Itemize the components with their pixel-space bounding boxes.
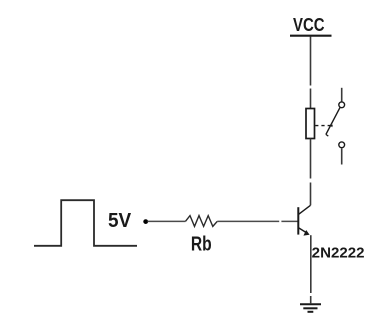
ground	[300, 304, 321, 312]
wire node to resistor Rb	[148, 220, 186, 222]
relay switch bottom contact stub wire	[341, 148, 343, 164]
svg-text:Rb: Rb	[191, 234, 212, 256]
svg-text:5V: 5V	[108, 210, 132, 232]
node input junction dot	[143, 219, 148, 224]
relay coil (box)	[306, 109, 315, 139]
relay switch top contact circle	[339, 102, 345, 108]
wire relay coil to collector	[310, 139, 312, 206]
label 2N2222	[312, 245, 365, 262]
label VCC	[293, 15, 325, 35]
svg-text:VCC: VCC	[293, 15, 325, 35]
resistor Rb zigzag	[186, 216, 218, 227]
label Rb	[191, 234, 212, 256]
power rail VCC bar	[290, 35, 332, 37]
relay switch arm	[326, 108, 340, 136]
svg-text:2N2222: 2N2222	[312, 245, 365, 262]
relay actuator dashed link	[315, 125, 330, 127]
wire emitter to ground	[310, 235, 312, 303]
wire VCC bar to relay coil	[310, 37, 312, 109]
relay switch bottom contact circle	[339, 142, 345, 148]
label 5V	[108, 210, 132, 232]
wire resistor Rb to base	[217, 220, 297, 222]
relay switch top contact stub wire	[341, 88, 343, 102]
transistor Q1 2N2222	[298, 205, 310, 235]
pulse source waveform	[34, 200, 137, 246]
